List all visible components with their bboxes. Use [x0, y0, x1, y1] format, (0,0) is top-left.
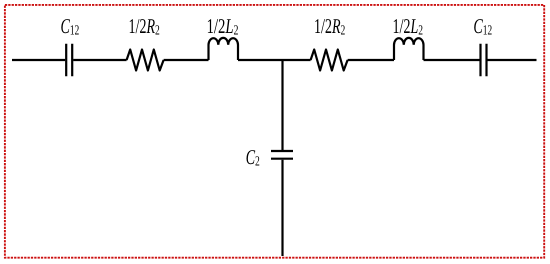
wire R2 to L2 (left): [164, 59, 209, 61]
inductor 1/2L2 (right): [394, 38, 424, 60]
wire L2 to middle node and to R2 right: [238, 59, 311, 61]
capacitor label C12 (left): [61, 19, 78, 34]
resistor 1/2R2 (right): [311, 50, 348, 71]
wire C12 to R2 left: [73, 59, 126, 61]
vertical wire from C2 down to bottom border: [281, 160, 283, 256]
inductor label 1/2L2 (left): [208, 19, 238, 34]
resistor label 1/2R2 (left): [130, 19, 160, 34]
wire L2 to C12 right: [424, 59, 480, 61]
inductor label 1/2L2 (right): [394, 19, 423, 34]
inductor 1/2L2 (left): [209, 38, 239, 60]
capacitor C12 (left) plates: [66, 44, 72, 77]
capacitor label C2: [246, 150, 259, 165]
capacitor C12 (right) plates: [481, 44, 487, 77]
wire R2 to L2 (right): [348, 59, 394, 61]
wire left terminal to C12 left plate: [12, 59, 65, 61]
vertical wire from middle node down to C2: [281, 60, 283, 150]
capacitor label C12 (right): [474, 19, 491, 34]
resistor 1/2R2 (left): [127, 50, 164, 71]
capacitor C2 plates: [271, 151, 293, 159]
resistor label 1/2R2 (right): [315, 19, 345, 34]
wire C12 to right terminal: [488, 59, 537, 61]
